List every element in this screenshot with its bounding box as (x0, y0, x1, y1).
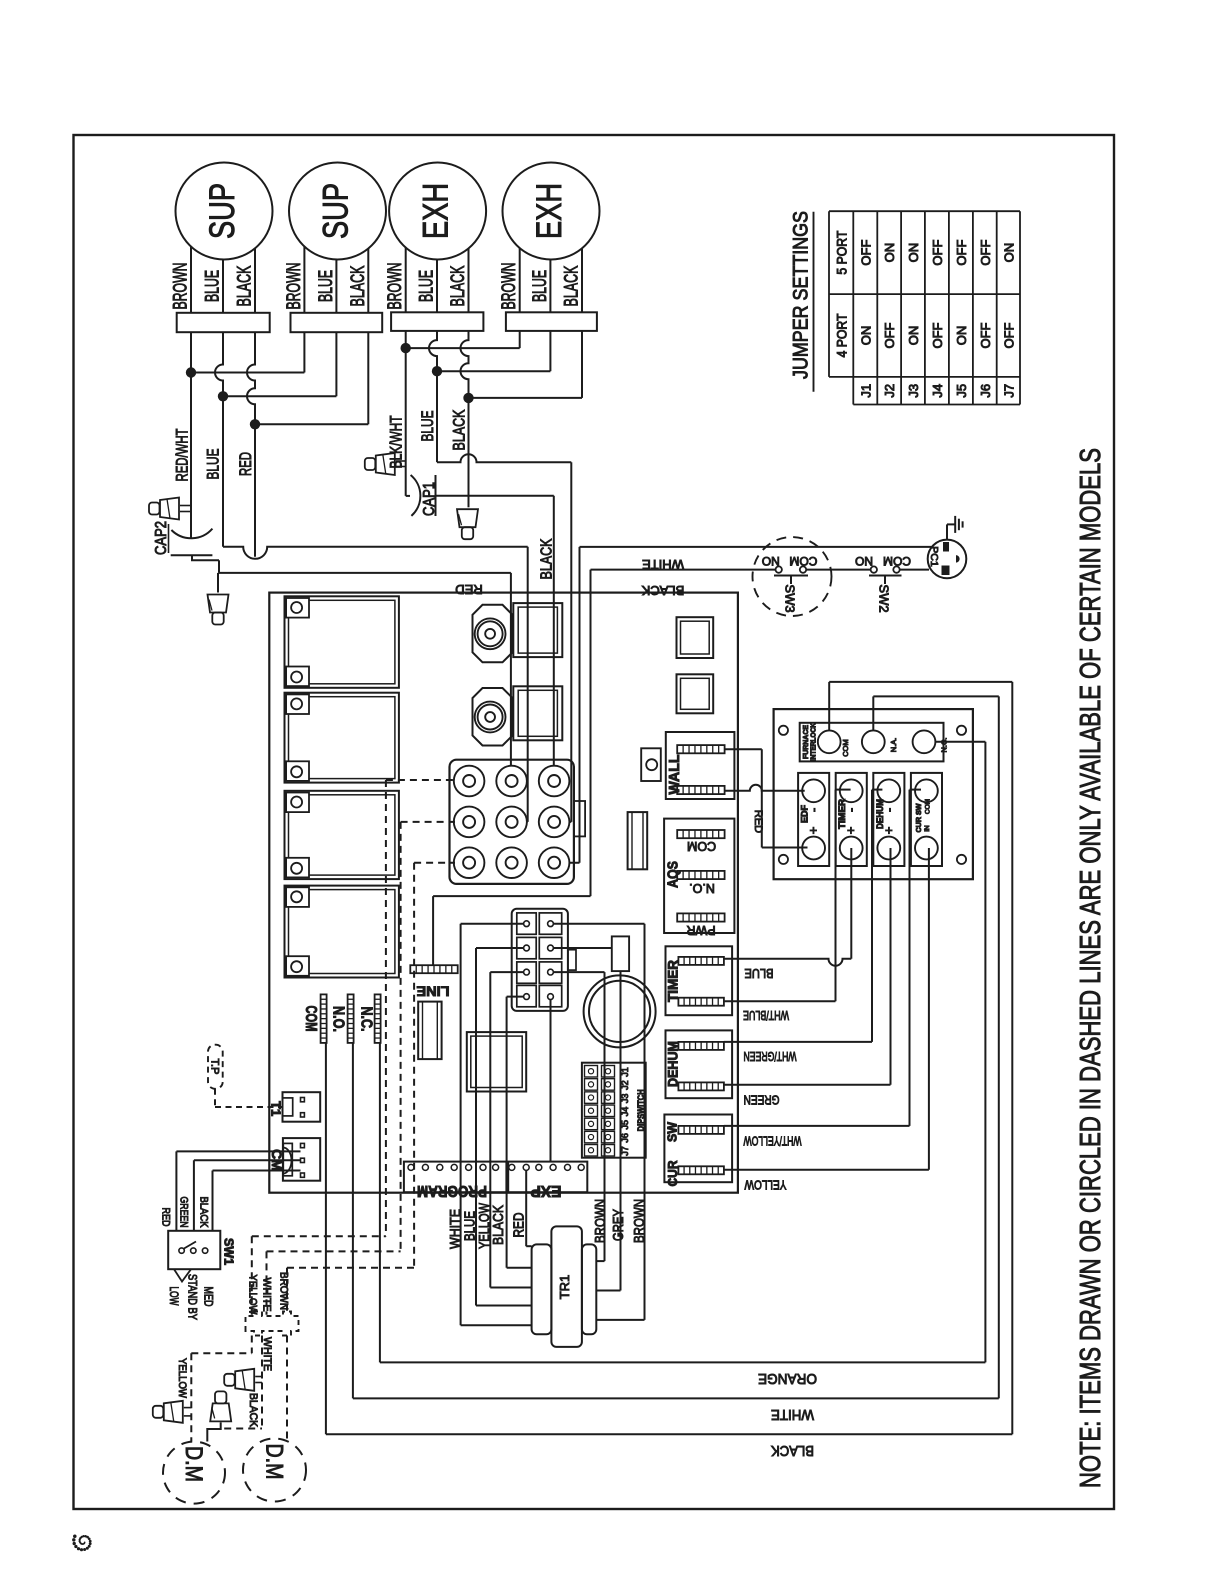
wire nut (black wire cap) (462, 527, 473, 539)
wire RED run to board (219, 572, 511, 574)
transformer TR1 (551, 1226, 582, 1347)
wire below CAP2 (191, 555, 193, 560)
svg-text:BLUE: BLUE (530, 270, 551, 302)
terminal (539, 847, 570, 878)
svg-text:WHT/GREEN: WHT/GREEN (744, 1049, 797, 1064)
wire motor lead BROWN (303, 246, 305, 312)
wire white dashed (option) (266, 1251, 268, 1314)
svg-text:BLACK: BLACK (235, 265, 256, 306)
terminal block CUR SW (911, 773, 942, 866)
svg-text:BLUE: BLUE (744, 966, 773, 981)
connector CM (283, 1138, 320, 1181)
wire 8pin row4 left (black) (507, 996, 523, 998)
terminal (454, 807, 485, 838)
svg-text:COM: COM (687, 839, 716, 853)
svg-text:ON: ON (882, 243, 897, 263)
svg-text:RED/WHT: RED/WHT (173, 429, 192, 482)
svg-text:D.M: D.M (261, 1444, 288, 1480)
pcb board outline (269, 593, 738, 1193)
motor D.M left (dashed) (163, 1442, 225, 1504)
wire motor lead BLACK (581, 248, 583, 313)
junction dot (250, 419, 260, 429)
thermal protector T.P (dashed) (208, 1045, 223, 1089)
svg-text:BLUE: BLUE (418, 411, 437, 442)
wire N.C. strip down (379, 1043, 381, 1363)
wire BLACK to SW3 (591, 569, 776, 571)
svg-text:BLUE: BLUE (417, 270, 438, 302)
capacitor housing H2 (513, 686, 562, 740)
svg-text:YELLOW: YELLOW (744, 1178, 787, 1193)
switch SW3 dashed circle (753, 537, 832, 616)
wire CUR COM drop (724, 1169, 929, 1171)
wire motor lead BROWN (190, 247, 192, 313)
terminal FURNACE N.C. (913, 730, 936, 753)
capacitor CAP1 straight plate (435, 475, 437, 516)
buzzer/coil circle (584, 975, 656, 1047)
wire EXP pin to TR1 (red) (525, 1170, 527, 1246)
wire FURNACE N.C. loop (orange) (935, 741, 985, 743)
capacitor CAP1 curved plate (411, 475, 421, 516)
svg-text:JUMPER SETTINGS: JUMPER SETTINGS (790, 211, 813, 379)
connector LINE (410, 965, 457, 973)
svg-text:OFF: OFF (930, 240, 945, 266)
wire nut (black splice) (215, 1391, 226, 1403)
svg-text:J7: J7 (1001, 384, 1016, 398)
wire motor lead BLACK (254, 248, 256, 313)
terminal (496, 766, 527, 797)
wire motor lead BLACK (367, 248, 369, 312)
svg-text:YELLOW: YELLOW (247, 1275, 259, 1316)
wire 8pin row2 left (blue) (476, 947, 523, 949)
svg-text:D.M: D.M (180, 1446, 207, 1482)
wire SW3 COM to SW2 NO (806, 569, 871, 571)
motor EXH circle (503, 163, 600, 260)
svg-text:ORANGE: ORANGE (758, 1370, 817, 1387)
switch SW3 contacts (776, 566, 782, 572)
wire BLACK into terminal block (553, 496, 555, 781)
wire nut splice at CAP2 (149, 503, 160, 515)
svg-text:SW1: SW1 (222, 1238, 236, 1265)
terminal strip panel (774, 709, 973, 879)
svg-text:PWR: PWR (686, 923, 715, 937)
svg-text:BROWN: BROWN (632, 1199, 648, 1243)
wire CAP1 elbow (406, 495, 410, 497)
svg-text:+: + (806, 827, 821, 835)
fuse F1 (628, 812, 648, 869)
terminal (539, 766, 570, 797)
svg-text:BROWN: BROWN (593, 1199, 609, 1243)
connector AQS (664, 819, 734, 933)
connector T1 (283, 1092, 321, 1122)
svg-text:J1: J1 (858, 384, 873, 398)
wire motor lead BLUE (549, 259, 551, 312)
motor SUP circle (176, 163, 273, 260)
wire motor blue to terminal block (with dip under RED) (223, 547, 528, 559)
wire nut (white splice) (224, 1374, 235, 1386)
wire BLACK bottom run (326, 1433, 1012, 1435)
svg-text:GREY: GREY (611, 1209, 627, 1241)
terminal block 3x3 (450, 760, 574, 884)
wire brown dashed (option) (286, 1268, 288, 1315)
terminal FURNACE N.A. (862, 730, 885, 753)
svg-text:OFF: OFF (978, 240, 993, 266)
wire COM strip down (325, 1043, 327, 1434)
wire SW3 feed down to LINE (590, 570, 592, 897)
terminal block DEHUM (873, 773, 904, 866)
svg-text:EXH: EXH (530, 183, 569, 239)
svg-text:DEHUM: DEHUM (875, 799, 885, 829)
svg-text:OFF: OFF (882, 322, 897, 348)
svg-text:SUP: SUP (317, 183, 356, 239)
svg-text:BLACK: BLACK (448, 265, 469, 306)
svg-text:SW2: SW2 (877, 584, 892, 612)
svg-text:IN: IN (924, 825, 931, 832)
svg-text:OFF: OFF (1001, 322, 1016, 348)
wire stub to black splice nut (468, 496, 470, 507)
terminal (496, 847, 527, 878)
svg-text:J2: J2 (882, 384, 897, 398)
svg-text:BROWN: BROWN (284, 263, 305, 310)
wire splice to D.M motor (207, 1422, 220, 1441)
svg-text:RED: RED (160, 1208, 172, 1227)
wire RED drop (254, 424, 256, 557)
svg-text:BLUE: BLUE (204, 449, 223, 480)
capacitor housing H1 (513, 603, 562, 657)
svg-text:AQS: AQS (665, 861, 682, 888)
wire TIMER- drop (836, 789, 851, 791)
connector bar CN3 (391, 312, 483, 331)
svg-text:ON: ON (954, 326, 969, 346)
svg-text:BLACK: BLACK (247, 1393, 259, 1428)
wire TIMER+ drop (724, 959, 851, 966)
svg-text:BROWN: BROWN (278, 1272, 290, 1310)
svg-text:T.P: T.P (209, 1059, 221, 1075)
wire N.O. strip down (352, 1043, 354, 1399)
svg-text:N.O.: N.O. (330, 1006, 347, 1032)
svg-text:J6: J6 (978, 384, 993, 398)
svg-text:WHITE: WHITE (261, 1278, 273, 1312)
svg-text:BLUE: BLUE (203, 270, 224, 302)
capacitor CAP2 straight plate (171, 554, 213, 556)
wire nut (red wire cap) (212, 613, 223, 625)
wire BLACK run from CAP1 (436, 495, 554, 497)
connector bar CN2 (291, 313, 383, 332)
wire DEHUM+ drop (724, 1084, 891, 1086)
relay K1 (285, 596, 399, 688)
wire SUP brown bus (190, 332, 192, 372)
svg-text:LOW: LOW (167, 1287, 181, 1306)
svg-text:STAND BY: STAND BY (186, 1274, 200, 1320)
terminal block EDF (798, 773, 829, 866)
wire 8pin row2 right to resistor (554, 947, 612, 949)
svg-text:T1: T1 (269, 1101, 284, 1116)
wire RED/WHT drop (190, 373, 192, 538)
svg-text:N.O.: N.O. (689, 881, 715, 895)
svg-text:WALL: WALL (666, 755, 683, 795)
svg-text:SW3: SW3 (783, 584, 798, 612)
motor EXH circle (389, 163, 486, 260)
wire 8pin row3 left (yellow) (490, 971, 523, 973)
dip switch block (582, 1063, 646, 1158)
wire WALL to EDF- (bump over red elbow) (725, 785, 805, 791)
terminal block TIMER (836, 773, 867, 866)
svg-text:J3: J3 (906, 384, 921, 398)
svg-text:RED: RED (512, 1213, 528, 1238)
svg-text:EDF: EDF (800, 804, 810, 823)
svg-text:CAP1: CAP1 (421, 482, 438, 516)
wire 8pin row4 right to EXP (550, 1000, 552, 1162)
wire motor lead BLUE (222, 259, 224, 312)
wire CM pin1 to SW1 (red) (176, 1150, 300, 1152)
terminal FURNACE COM (818, 730, 841, 753)
junction dot (401, 343, 411, 353)
wire SW2 COM to PC1 (900, 569, 930, 571)
connector EXP (508, 1162, 587, 1193)
wire RED elbow WALL to EDF+ (725, 748, 762, 750)
svg-text:+: + (843, 827, 858, 835)
switch SW1 (168, 1231, 220, 1269)
wire BLUE drop (222, 396, 224, 547)
connector J8 (8-pin) (512, 909, 568, 1011)
wire CM pin2 to SW1 (green) (194, 1159, 301, 1161)
svg-text:INTERLOCK: INTERLOCK (809, 722, 818, 761)
svg-text:WHITE: WHITE (261, 1337, 273, 1371)
relay K2 (285, 693, 399, 783)
furnace interlock block (800, 723, 944, 762)
svg-text:RED: RED (455, 582, 482, 597)
plug (dashed connector) (246, 1312, 299, 1336)
svg-text:MED: MED (202, 1287, 216, 1307)
svg-text:+: + (881, 827, 896, 835)
svg-text:NOTE: ITEMS DRAWN OR CIRCL: NOTE: ITEMS DRAWN OR CIRCLED IN DASHED L… (1075, 448, 1107, 1488)
wire FURNACE N.A. loop (white) (872, 696, 874, 730)
wire FURNACE COM loop (black) (828, 682, 830, 731)
svg-text:RED: RED (236, 452, 255, 476)
svg-text:PC1: PC1 (928, 546, 940, 567)
wire CUR IN drop (910, 789, 922, 791)
svg-text:ON: ON (858, 326, 873, 346)
capacitor can C1 (473, 605, 513, 663)
junction dot (186, 367, 196, 377)
wire WHITE bottom run (353, 1397, 999, 1399)
svg-text:CUR SW: CUR SW (914, 803, 923, 833)
svg-text:BLACK: BLACK (198, 1197, 210, 1229)
svg-text:LINE: LINE (417, 984, 450, 1000)
wire motor lead BLACK (468, 248, 470, 312)
svg-text:SUP: SUP (203, 183, 242, 239)
svg-text:ON: ON (906, 326, 921, 346)
svg-text:OFF: OFF (954, 240, 969, 266)
svg-text:OFF: OFF (858, 240, 873, 266)
pad with hole (641, 748, 661, 781)
connector bar CN4 (506, 312, 597, 331)
svg-text:BROWN: BROWN (171, 263, 192, 310)
wire SUP blue bus (bows over brown bus) (215, 332, 223, 396)
wire BLUE drop (EXH) (436, 371, 438, 462)
svg-text:WHT/YELLOW: WHT/YELLOW (743, 1134, 801, 1149)
wire RED into terminal block (510, 573, 512, 781)
wire DEHUM- drop (872, 789, 882, 791)
svg-text:4 PORT: 4 PORT (835, 314, 850, 358)
wire EXH brown bus (405, 331, 407, 348)
capacitor can C2 (473, 688, 513, 746)
svg-text:N.C.: N.C. (940, 738, 949, 753)
wire SUP black bus (247, 332, 255, 424)
svg-text:YELLOW: YELLOW (176, 1358, 188, 1399)
svg-text:COM: COM (841, 739, 850, 757)
svg-text:N.A.: N.A. (889, 738, 898, 753)
svg-text:J4: J4 (930, 384, 945, 398)
wire WHITE to power cord (580, 546, 934, 548)
svg-text:OFF: OFF (978, 322, 993, 348)
terminal (496, 807, 527, 838)
svg-text:BLACK: BLACK (450, 409, 469, 450)
svg-text:NO: NO (762, 554, 780, 568)
jumper settings table grid (828, 211, 830, 377)
wire EXH blue bus (429, 331, 437, 371)
svg-text:ON: ON (906, 243, 921, 263)
svg-text:ON: ON (1001, 243, 1016, 263)
svg-text:GREEN: GREEN (178, 1197, 190, 1228)
svg-text:RED: RED (752, 810, 764, 833)
wire CM pin3 to SW1 (black) (213, 1170, 301, 1172)
wire yellow dashed to D.M (251, 1336, 253, 1354)
wire branch into terminal block row3 (579, 547, 581, 863)
relay output strip N.C. (375, 994, 381, 1043)
junction dot (432, 366, 442, 376)
svg-text:BLACK: BLACK (771, 1442, 814, 1459)
svg-text:CAP2: CAP2 (153, 521, 170, 555)
svg-text:OFF: OFF (930, 322, 945, 348)
motor SUP circle (289, 163, 386, 260)
page border frame (74, 135, 1115, 1509)
relay K3 (285, 791, 399, 879)
wire nut splice at CAP1 (365, 458, 376, 470)
wire motor lead BROWN (519, 248, 521, 313)
wire T.P to T1 (dashed) (214, 1089, 216, 1107)
wire 8pin row1 right (brown) (554, 923, 645, 925)
svg-text:COM: COM (789, 554, 817, 568)
component blocks top right (677, 617, 714, 658)
wire motor lead BROWN (405, 248, 407, 313)
wire white dashed to splice (261, 1336, 263, 1380)
wire black dashed to splice (261, 1383, 263, 1429)
svg-text:COM: COM (302, 1006, 319, 1032)
svg-text:BROWN: BROWN (499, 263, 520, 310)
svg-text:BLACK: BLACK (491, 1205, 507, 1245)
wire yellow dashed (option) (251, 1236, 253, 1315)
junction dot (218, 391, 228, 401)
component block U2 (467, 1032, 526, 1091)
wire 8pin row1 left (white) (461, 923, 523, 925)
component block U3 (418, 1002, 441, 1060)
connector PROGRAM (404, 1162, 507, 1193)
switch SW2 contacts (871, 566, 877, 572)
wire EXH blue run (437, 454, 571, 462)
wire brown dashed to D.M (286, 1336, 288, 1439)
wire nut (yellow splice) (153, 1406, 164, 1418)
svg-text:COM: COM (883, 554, 911, 568)
svg-text:WHT/BLUE: WHT/BLUE (743, 1008, 789, 1023)
svg-text:BLACK: BLACK (348, 265, 369, 306)
switch SW1 actuator flag (174, 1269, 191, 1281)
resistor block (612, 936, 629, 971)
wire motor lead BLUE (436, 259, 438, 312)
svg-text:J5: J5 (954, 384, 969, 398)
svg-text:EXP: EXP (530, 1182, 561, 1199)
wire ORANGE bottom run (380, 1361, 986, 1363)
svg-text:5 PORT: 5 PORT (835, 231, 850, 275)
wire stub to red splice nut (217, 573, 219, 593)
svg-text:BLACK: BLACK (641, 583, 684, 598)
svg-text:SW: SW (665, 1121, 680, 1142)
svg-text:NO: NO (855, 554, 873, 568)
terminal (539, 807, 570, 838)
relay output strip COM (321, 994, 327, 1043)
svg-text:TIMER: TIMER (665, 960, 681, 1002)
connector TIMER (666, 946, 733, 1015)
connector bar CN1 (177, 313, 270, 332)
connector SW/CUR (664, 1115, 732, 1183)
svg-text:TR1: TR1 (557, 1275, 572, 1300)
logo dots (84, 1542, 86, 1544)
svg-text:BLACK: BLACK (562, 265, 583, 306)
relay K4 (285, 886, 399, 978)
ground symbol (946, 524, 948, 539)
terminal (454, 766, 485, 797)
wire motor lead BLUE (335, 259, 337, 312)
svg-text:COM: COM (924, 799, 931, 814)
junction dot (463, 393, 473, 403)
svg-text:BLUE: BLUE (316, 270, 337, 302)
capacitor CAP2 curved plate (171, 529, 212, 539)
svg-text:TIMER: TIMER (837, 798, 847, 829)
svg-text:WHITE: WHITE (771, 1406, 814, 1423)
svg-text:BROWN: BROWN (385, 263, 406, 310)
svg-text:GREEN: GREEN (744, 1093, 780, 1108)
wire GREY drop (620, 971, 622, 1290)
wire EXH black bus (461, 331, 469, 398)
terminal (454, 847, 485, 878)
power cord PC1 (928, 540, 967, 579)
connector WALL (666, 732, 735, 799)
wire BLACK drop (EXH) (468, 398, 470, 507)
svg-text:EXH: EXH (417, 183, 456, 239)
wire BLK/WHT drop (405, 348, 407, 496)
motor D.M right (dashed) (243, 1439, 306, 1502)
connector DEHUM (666, 1030, 733, 1098)
wire 8pin row3 right (brown) (554, 971, 605, 973)
relay output strip N.O. (348, 994, 354, 1043)
svg-text:N.C.: N.C. (358, 1007, 375, 1032)
